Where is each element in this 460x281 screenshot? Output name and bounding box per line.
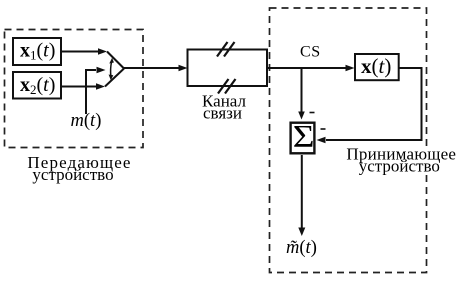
svg-text:m̃(t): m̃(t): [286, 238, 317, 258]
switch upper contact line: [107, 52, 124, 69]
channel block: [188, 50, 268, 87]
minus sign right: [321, 128, 326, 130]
svg-text:устройство: устройство: [359, 157, 440, 176]
svg-text:x1(t): x1(t): [20, 40, 55, 63]
wire x2 to switch: [62, 86, 97, 88]
wire sigma to output: [301, 155, 303, 228]
block x1(t): [13, 38, 61, 65]
wire x1 to switch: [62, 51, 99, 53]
wire switch to channel: [124, 67, 179, 69]
switch swing arrow: [111, 62, 112, 77]
block x(t): [355, 54, 399, 80]
channel top break slashes: [217, 42, 228, 57]
wire junction down to sigma: [301, 68, 303, 112]
svg-text:m(t): m(t): [71, 111, 102, 131]
wire channel to x(t): [267, 67, 346, 69]
sigma block: [291, 123, 315, 154]
switch lower contact line: [105, 69, 124, 87]
channel bottom break slashes: [218, 79, 229, 94]
transmitter dashed enclosure: [5, 30, 144, 148]
svg-text:x(t): x(t): [361, 54, 391, 78]
svg-text:CS: CS: [300, 44, 321, 61]
block x2(t): [13, 72, 61, 99]
svg-text:Σ: Σ: [293, 118, 315, 154]
white patch under receiver label: [346, 147, 458, 175]
receiver dashed enclosure: [270, 8, 427, 273]
minus sign top: [310, 112, 315, 114]
feedback wire x(t) to sigma: [326, 68, 422, 140]
svg-text:устройство: устройство: [32, 165, 113, 184]
wire m(t) to switch: [86, 70, 96, 114]
svg-text:связи: связи: [203, 104, 242, 123]
svg-text:x2(t): x2(t): [20, 74, 55, 97]
